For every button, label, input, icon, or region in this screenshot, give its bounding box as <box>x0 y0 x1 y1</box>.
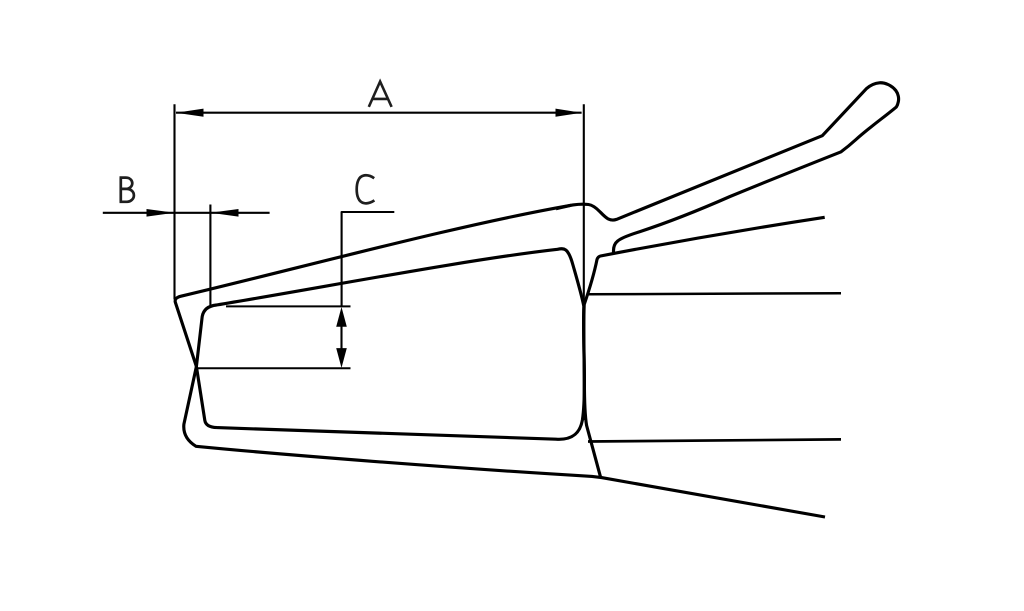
dimension A right arrowhead <box>556 109 582 117</box>
label A <box>369 82 392 107</box>
dimension A right extension line <box>583 104 585 420</box>
upper jaw top edge D1 with tip corner and steep tip edge down to inner bottom edge <box>175 205 571 427</box>
lower break line <box>588 439 841 441</box>
window piece: inner bottom edge, bottom-right corner, right waist edge, V-left side, top edge D2, window top-left corner, left edge through X to outer corner, outer bottom edge, lower-right diagonal <box>184 249 825 517</box>
dimension B left arrowhead <box>147 209 175 217</box>
fixed jaw top edge, V-right side, hidden waist segment down to bottom junction <box>584 217 825 477</box>
dimension B line <box>103 212 270 214</box>
dimension A left extension line <box>173 104 175 299</box>
dimension A line <box>176 112 582 114</box>
dimension B right arrowhead <box>210 209 238 217</box>
middle break line <box>588 293 841 294</box>
label B <box>120 178 134 202</box>
dimension C top extension line <box>226 305 351 307</box>
dimension C shaft between arrows <box>340 326 342 350</box>
dimension C leader <box>342 212 395 306</box>
dimension A left arrowhead <box>176 109 204 117</box>
dimension B right extension line <box>209 205 211 307</box>
label C <box>357 175 375 203</box>
dimension C bottom extension line <box>197 367 351 369</box>
dimension C up arrowhead <box>336 307 347 327</box>
dimension C down arrowhead <box>336 348 347 368</box>
top outline S-dip, lever top edge, hook with rounded cap, lever bottom edge, end curl <box>556 83 899 253</box>
